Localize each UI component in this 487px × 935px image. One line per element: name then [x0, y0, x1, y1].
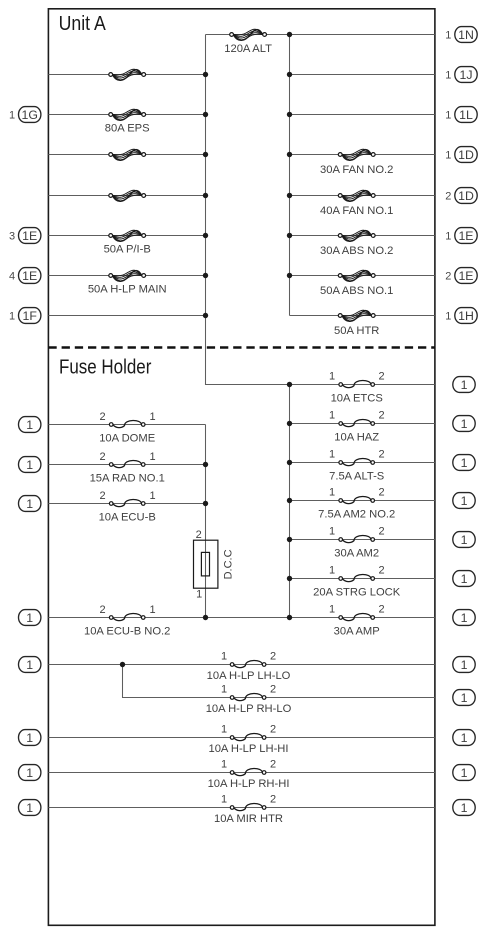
wire left row row y74.5 — [48, 74, 205, 76]
wire right row 30A AM2 — [290, 539, 435, 541]
fuse F 30A AMP — [339, 613, 375, 620]
svg-text:40A FAN NO.1: 40A FAN NO.1 — [320, 205, 393, 217]
connector output of 20A STRG LOCK — [453, 571, 475, 587]
connector input of 10A H-LP LH-HI — [19, 730, 41, 746]
svg-text:2: 2 — [196, 529, 202, 541]
svg-text:2: 2 — [378, 565, 384, 577]
junction left bus at y=275.5 — [203, 273, 208, 278]
svg-text:1: 1 — [26, 658, 33, 672]
svg-text:1: 1 — [461, 572, 468, 586]
svg-text:1: 1 — [461, 456, 468, 470]
pin 2 of D.C.C — [196, 529, 202, 541]
svg-text:2: 2 — [378, 449, 384, 461]
connector pin 1 1L — [445, 107, 477, 123]
label value 10A H-LP LH-HI — [208, 743, 288, 755]
svg-text:1: 1 — [221, 759, 227, 771]
svg-text:1: 1 — [461, 731, 468, 745]
wire right row 40A FAN NO.1 — [290, 195, 435, 197]
connector input of 10A ECU-B NO.2 — [19, 610, 41, 626]
svg-text:1: 1 — [149, 604, 155, 616]
fuse F 7.5A ALT-S — [339, 458, 375, 465]
svg-text:1E: 1E — [22, 229, 37, 243]
svg-text:10A ETCS: 10A ETCS — [331, 392, 383, 404]
svg-text:1: 1 — [329, 604, 335, 616]
svg-text:1: 1 — [221, 724, 227, 736]
svg-text:1: 1 — [461, 766, 468, 780]
connector pin 1 1G — [9, 107, 41, 123]
wire left bus (fuse holder D.C.C feed) — [205, 425, 207, 618]
wire fuse holder right bus — [289, 385, 291, 618]
label value 10A H-LP RH-LO — [206, 703, 292, 715]
svg-text:1E: 1E — [458, 269, 473, 283]
svg-text:1: 1 — [461, 611, 468, 625]
connector output of 10A H-LP LH-LO — [453, 657, 475, 673]
svg-text:4: 4 — [9, 271, 15, 283]
fuse F 10A HAZ — [339, 419, 375, 426]
svg-text:1: 1 — [445, 110, 451, 122]
svg-text:1D: 1D — [458, 189, 474, 203]
connector input of 10A MIR HTR — [19, 800, 41, 816]
label value 10A ETCS — [331, 392, 383, 404]
connector pin 1 1F — [9, 308, 41, 324]
svg-text:50A P/I-B: 50A P/I-B — [104, 243, 151, 255]
fusible link F unnamed 195.5 — [109, 190, 146, 201]
svg-text:1: 1 — [445, 70, 451, 82]
fusible link F 50A HTR — [338, 310, 375, 321]
wire right row to 1L — [290, 114, 435, 116]
connector pin 1 1E — [445, 228, 477, 244]
connector output of 10A ETCS — [453, 377, 475, 393]
junction fuse holder bus at y=539.5 — [287, 537, 292, 542]
pin numbers of 15A RAD NO.1 — [99, 451, 155, 463]
pin numbers of 20A STRG LOCK — [329, 565, 385, 577]
connector output of 10A MIR HTR — [453, 800, 475, 816]
svg-text:2: 2 — [270, 651, 276, 663]
label value 40A FAN NO.1 — [320, 205, 393, 217]
svg-text:2: 2 — [99, 490, 105, 502]
wire row 10A ECU-B NO.2 / 30A AMP — [48, 617, 435, 619]
junction left bus at y=114.5 — [203, 112, 208, 117]
fusible link F 40A FAN NO.1 — [338, 190, 375, 201]
svg-text:1: 1 — [445, 150, 451, 162]
wire left row 50A P/I-B — [48, 235, 205, 237]
svg-text:2: 2 — [99, 451, 105, 463]
connector output of 10A H-LP RH-LO — [453, 690, 475, 706]
connector output of 10A HAZ — [453, 416, 475, 432]
svg-text:1E: 1E — [458, 229, 473, 243]
fuse F 10A H-LP RH-LO — [230, 693, 266, 700]
wire right row 30A FAN NO.2 — [290, 154, 435, 156]
junction right bus at y=154.5 — [287, 152, 292, 157]
svg-text:2: 2 — [378, 604, 384, 616]
wire right bus (Unit A) — [289, 35, 291, 316]
svg-text:1G: 1G — [21, 108, 37, 122]
junction right bus at y=235.5 — [287, 233, 292, 238]
svg-text:10A DOME: 10A DOME — [99, 433, 155, 445]
label value 50A HTR — [334, 325, 379, 337]
svg-text:1: 1 — [461, 417, 468, 431]
svg-text:2: 2 — [270, 794, 276, 806]
fusible link F 50A H-LP MAIN — [109, 270, 146, 281]
wire left row 50A H-LP MAIN — [48, 275, 205, 277]
junction right bus bottom at row G — [287, 615, 292, 620]
connector output of 7.5A ALT-S — [453, 455, 475, 471]
svg-text:10A H-LP LH-LO: 10A H-LP LH-LO — [207, 670, 291, 682]
svg-text:1: 1 — [149, 411, 155, 423]
fusible link F 30A ABS NO.2 — [338, 230, 375, 241]
svg-text:2: 2 — [378, 526, 384, 538]
svg-text:2: 2 — [99, 604, 105, 616]
connector pin 2 1E — [445, 268, 477, 284]
svg-text:1: 1 — [461, 378, 468, 392]
fusible link F 120A ALT — [230, 29, 267, 40]
svg-text:2: 2 — [378, 371, 384, 383]
svg-text:1: 1 — [196, 589, 202, 601]
pin numbers of 7.5A AM2 NO.2 — [329, 487, 385, 499]
fusible link F 50A P/I-B — [109, 230, 146, 241]
svg-text:2: 2 — [270, 759, 276, 771]
wire left row row y154.5 — [48, 154, 205, 156]
svg-text:10A ECU-B NO.2: 10A ECU-B NO.2 — [84, 626, 170, 638]
fuse F 15A RAD NO.1 — [109, 460, 145, 467]
connector pin 1 1D — [445, 147, 477, 163]
connector input of 10A H-LP RH-HI — [19, 765, 41, 781]
svg-text:1: 1 — [329, 565, 335, 577]
wire 120A ALT row — [206, 34, 435, 36]
svg-text:1N: 1N — [458, 28, 474, 42]
label value 120A ALT — [224, 43, 272, 55]
connector pin 1 1H — [445, 308, 477, 324]
svg-text:1: 1 — [445, 311, 451, 323]
svg-text:30A AMP: 30A AMP — [334, 625, 380, 637]
junction right bus at y=114.5 — [287, 112, 292, 117]
label value 20A STRG LOCK — [313, 586, 401, 598]
wire row 10A H-LP LH-HI — [48, 737, 435, 739]
svg-text:1: 1 — [329, 487, 335, 499]
label value 50A ABS NO.1 — [320, 285, 393, 297]
connector output of 7.5A AM2 NO.2 — [453, 493, 475, 509]
svg-text:7.5A AM2 NO.2: 7.5A AM2 NO.2 — [318, 508, 395, 520]
wire left row 10A DOME — [48, 424, 205, 426]
label section title Fuse Holder — [59, 356, 152, 379]
fuse F 10A ECU-B NO.2 — [109, 613, 145, 620]
connector pin 1 1J — [445, 67, 477, 83]
label value 10A HAZ — [334, 431, 379, 443]
svg-text:3: 3 — [9, 231, 15, 243]
junction left bus at y=235.5 — [203, 233, 208, 238]
wire row 10A H-LP LH-LO — [48, 664, 435, 666]
wire branch to RH-LO — [122, 665, 124, 698]
svg-text:1D: 1D — [458, 148, 474, 162]
svg-text:50A HTR: 50A HTR — [334, 325, 379, 337]
fusible link F 30A FAN NO.2 — [338, 149, 375, 160]
svg-text:1: 1 — [329, 449, 335, 461]
svg-text:2: 2 — [270, 724, 276, 736]
wire right row 10A HAZ — [290, 423, 435, 425]
svg-text:80A EPS: 80A EPS — [105, 122, 150, 134]
pin numbers of 10A ECU-B NO.2 — [99, 604, 155, 616]
fuse F 10A H-LP LH-LO — [230, 660, 266, 667]
pin numbers of 10A MIR HTR — [221, 794, 276, 806]
svg-text:10A H-LP RH-LO: 10A H-LP RH-LO — [206, 703, 292, 715]
pin numbers of 30A AM2 — [329, 526, 385, 538]
svg-text:1: 1 — [26, 418, 33, 432]
fuse F 20A STRG LOCK — [339, 574, 375, 581]
svg-text:1: 1 — [329, 371, 335, 383]
svg-text:1: 1 — [221, 684, 227, 696]
svg-text:30A AM2: 30A AM2 — [334, 547, 379, 559]
wire left bus (Unit A feed) — [205, 35, 207, 385]
svg-text:7.5A ALT-S: 7.5A ALT-S — [329, 470, 384, 482]
svg-text:1: 1 — [26, 611, 33, 625]
svg-text:10A H-LP RH-HI: 10A H-LP RH-HI — [208, 778, 290, 790]
svg-text:1: 1 — [221, 794, 227, 806]
pin numbers of 10A H-LP RH-LO — [221, 684, 276, 696]
pin numbers of 10A H-LP LH-LO — [221, 651, 276, 663]
connector pin 4 1E — [9, 268, 41, 284]
label value 30A AMP — [334, 625, 380, 637]
svg-text:15A RAD NO.1: 15A RAD NO.1 — [90, 473, 165, 485]
svg-text:1: 1 — [461, 658, 468, 672]
svg-text:1H: 1H — [458, 309, 474, 323]
label value 50A H-LP MAIN — [88, 283, 167, 295]
fusible link F unnamed 154.5 — [109, 149, 146, 160]
svg-text:120A ALT: 120A ALT — [224, 43, 272, 55]
svg-text:1: 1 — [9, 311, 15, 323]
pin numbers of 10A HAZ — [329, 410, 385, 422]
wire row 10A H-LP RH-HI — [48, 772, 435, 774]
junction fuse holder bus at y=462.5 — [287, 460, 292, 465]
label value 10A DOME — [99, 433, 155, 445]
svg-text:1J: 1J — [460, 68, 473, 82]
label section title Unit A — [59, 12, 106, 35]
junction right bus at y=275.5 — [287, 273, 292, 278]
svg-text:1: 1 — [461, 494, 468, 508]
label value 7.5A ALT-S — [329, 470, 384, 482]
wire row 10A H-LP RH-LO — [122, 697, 435, 699]
label value 10A ECU-B NO.2 — [84, 626, 170, 638]
junction right bus at y=195.5 — [287, 193, 292, 198]
svg-text:1: 1 — [9, 110, 15, 122]
svg-text:1E: 1E — [22, 269, 37, 283]
circuit breaker D.C.C — [194, 540, 218, 588]
junction fuse holder bus at y=384.5 — [287, 382, 292, 387]
connector input of 10A ECU-B — [19, 496, 41, 512]
fusible link F 50A ABS NO.1 — [338, 270, 375, 281]
svg-text:1: 1 — [26, 458, 33, 472]
svg-text:Fuse Holder: Fuse Holder — [59, 356, 152, 379]
wire right row 7.5A AM2 NO.2 — [290, 500, 435, 502]
svg-text:1: 1 — [461, 801, 468, 815]
connector input of 15A RAD NO.1 — [19, 457, 41, 473]
junction left bus at y=464.5 — [203, 462, 208, 467]
wire feed elbow to fuse holder bus — [206, 383, 290, 386]
wire right row to 1J — [290, 74, 435, 76]
svg-text:1: 1 — [26, 801, 33, 815]
pin numbers of 30A AMP — [329, 604, 385, 616]
wire right row 50A ABS NO.1 — [290, 275, 435, 277]
svg-text:1: 1 — [26, 766, 33, 780]
label value 10A H-LP RH-HI — [208, 778, 290, 790]
connector output of 30A AMP — [453, 610, 475, 626]
svg-text:20A STRG LOCK: 20A STRG LOCK — [313, 586, 401, 598]
label value 30A AM2 — [334, 547, 379, 559]
pin numbers of 10A H-LP LH-HI — [221, 724, 276, 736]
svg-text:1: 1 — [461, 691, 468, 705]
junction left bus at y=195.5 — [203, 193, 208, 198]
label value 10A ECU-B — [99, 512, 156, 524]
fuse F 10A DOME — [109, 420, 145, 427]
svg-text:10A ECU-B: 10A ECU-B — [99, 512, 156, 524]
label value 10A MIR HTR — [214, 813, 283, 825]
connector pin 1 1N — [445, 27, 477, 43]
label value 80A EPS — [105, 122, 150, 134]
svg-text:2: 2 — [378, 410, 384, 422]
svg-text:10A HAZ: 10A HAZ — [334, 431, 379, 443]
pin numbers of 10A DOME — [99, 411, 155, 423]
svg-text:2: 2 — [445, 271, 451, 283]
svg-text:2: 2 — [445, 191, 451, 203]
label value 15A RAD NO.1 — [90, 473, 165, 485]
fuse F 10A ETCS — [339, 380, 375, 387]
connector output of 30A AM2 — [453, 532, 475, 548]
connector pin 3 1E — [9, 228, 41, 244]
svg-text:1: 1 — [461, 533, 468, 547]
pin numbers of 10A H-LP RH-HI — [221, 759, 276, 771]
pin numbers of 7.5A ALT-S — [329, 449, 385, 461]
wire right row 10A ETCS — [290, 384, 435, 386]
svg-text:1: 1 — [149, 490, 155, 502]
fusible link F unnamed 74.5 — [109, 69, 146, 80]
section divider dashed line — [48, 346, 435, 349]
fuse F 10A ECU-B — [109, 499, 145, 506]
svg-text:2: 2 — [270, 684, 276, 696]
svg-text:2: 2 — [378, 487, 384, 499]
connector output of 10A H-LP RH-HI — [453, 765, 475, 781]
svg-text:1L: 1L — [459, 108, 473, 122]
wire left row row y195.5 — [48, 195, 205, 197]
pin 1 of D.C.C — [196, 589, 202, 601]
label D.C.C — [223, 549, 235, 579]
svg-text:1: 1 — [26, 497, 33, 511]
svg-text:1: 1 — [329, 526, 335, 538]
junction branch junction on LH-LO row — [120, 662, 125, 667]
connector output of 10A H-LP LH-HI — [453, 730, 475, 746]
label value 50A P/I-B — [104, 243, 151, 255]
svg-text:D.C.C: D.C.C — [223, 549, 235, 579]
wire right row 30A ABS NO.2 — [290, 235, 435, 237]
svg-text:1: 1 — [445, 231, 451, 243]
label value 7.5A AM2 NO.2 — [318, 508, 395, 520]
wire right row 20A STRG LOCK — [290, 578, 435, 580]
junction fuse holder bus at y=423.5 — [287, 421, 292, 426]
wire right row 7.5A ALT-S — [290, 462, 435, 464]
svg-text:1F: 1F — [23, 309, 38, 323]
wire left row to 1F — [48, 315, 205, 317]
svg-text:30A ABS NO.2: 30A ABS NO.2 — [320, 245, 393, 257]
fuse F 30A AM2 — [339, 535, 375, 542]
junction right bus at y=74.5 — [287, 72, 292, 77]
svg-text:Unit A: Unit A — [59, 12, 106, 35]
fuse F 10A H-LP LH-HI — [230, 733, 266, 740]
pin numbers of 10A ETCS — [329, 371, 385, 383]
junction fuse holder bus at y=578.5 — [287, 576, 292, 581]
junction left bus at y=503.5 — [203, 501, 208, 506]
wire left row 80A EPS — [48, 114, 205, 116]
wire left row 15A RAD NO.1 — [48, 464, 205, 466]
pin numbers of 10A ECU-B — [99, 490, 155, 502]
junction left bus at y=74.5 — [203, 72, 208, 77]
fusible link F 80A EPS — [109, 109, 146, 120]
fuse F 10A H-LP RH-HI — [230, 768, 266, 775]
fuse F 10A MIR HTR — [230, 803, 266, 810]
svg-text:1: 1 — [445, 30, 451, 42]
junction fuse holder bus at y=500.5 — [287, 498, 292, 503]
connector pin 2 1D — [445, 188, 477, 204]
wire left row 10A ECU-B — [48, 503, 205, 505]
wire right row 50A HTR — [290, 315, 435, 317]
wire row 10A MIR HTR — [48, 807, 435, 809]
junction left bus bottom at row G — [203, 615, 208, 620]
junction left bus at y=154.5 — [203, 152, 208, 157]
svg-text:10A H-LP LH-HI: 10A H-LP LH-HI — [208, 743, 288, 755]
svg-text:2: 2 — [99, 411, 105, 423]
label value 10A H-LP LH-LO — [207, 670, 291, 682]
label value 30A ABS NO.2 — [320, 245, 393, 257]
connector input of 10A H-LP LH-LO — [19, 657, 41, 673]
svg-text:30A FAN NO.2: 30A FAN NO.2 — [320, 164, 393, 176]
svg-text:1: 1 — [329, 410, 335, 422]
svg-text:1: 1 — [26, 731, 33, 745]
svg-text:50A ABS NO.1: 50A ABS NO.1 — [320, 285, 393, 297]
fuse F 7.5A AM2 NO.2 — [339, 496, 375, 503]
svg-text:50A H-LP MAIN: 50A H-LP MAIN — [88, 283, 167, 295]
svg-text:1: 1 — [221, 651, 227, 663]
junction right bus / 1N row — [287, 32, 292, 37]
svg-text:10A MIR HTR: 10A MIR HTR — [214, 813, 283, 825]
connector input of 10A DOME — [19, 417, 41, 433]
svg-text:1: 1 — [149, 451, 155, 463]
junction left bus at y=315.5 — [203, 313, 208, 318]
label value 30A FAN NO.2 — [320, 164, 393, 176]
